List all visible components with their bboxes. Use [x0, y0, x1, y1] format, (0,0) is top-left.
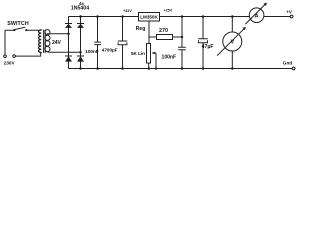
terminal: mains input right [13, 55, 16, 58]
transformer T1 primary winding [39, 30, 42, 53]
svg-text:Reg: Reg [136, 26, 146, 32]
capacitor C3 100nF [178, 47, 186, 68]
node: top rail voltmeter junction [231, 15, 234, 18]
svg-text:230V: 230V [4, 60, 16, 65]
svg-text:1N5404: 1N5404 [71, 6, 89, 12]
wire: pot bottom terminal to bottom rail [148, 63, 150, 69]
wire: regulator output rail [160, 16, 250, 18]
svg-text:+32V: +32V [123, 9, 132, 13]
node: bridge AC1 junction [67, 32, 70, 35]
node: bottom rail C3 junction [181, 67, 184, 70]
voltmeter M1 [217, 27, 246, 56]
node: R1/C3 junction [181, 36, 183, 38]
node: bottom rail leg2 junction [79, 67, 82, 70]
svg-text:270: 270 [159, 28, 168, 34]
node: bottom rail C4 junction [202, 67, 205, 70]
diode D1 (leg1 top, 1N5404) [65, 24, 72, 28]
svg-text:+25V: +25V [163, 9, 172, 13]
svg-text:100nF: 100nF [85, 49, 98, 54]
wire: secondary top to bridge AC node 1 [46, 34, 68, 36]
resistor R1 270 [149, 35, 182, 40]
wire: ground bottom rail [69, 68, 293, 70]
wire: secondary bottom to bridge AC node 2 [49, 51, 80, 53]
diode D3 (leg1 bottom, 1N5404) [65, 56, 72, 62]
node: top rail leg2 junction [79, 15, 82, 18]
potentiometer wiper arrow [152, 52, 156, 55]
node: top rail C4 junction [202, 15, 205, 18]
wire: voltmeter top lead [231, 17, 233, 33]
node: wiper bottom junction [155, 67, 158, 70]
regulator U1 LM350K box [139, 13, 160, 22]
terminal: +V output [290, 15, 293, 18]
svg-text:SWITCH: SWITCH [7, 21, 29, 27]
node: pot bottom junction [148, 67, 151, 70]
svg-text:LM350K: LM350K [140, 15, 158, 20]
terminal: mains input left [4, 55, 7, 58]
terminal: Gnd [292, 67, 295, 70]
diode D2 (leg2 top, 1N5404) [77, 24, 84, 28]
node: bottom rail voltmeter junction [231, 67, 234, 70]
wire: wiper to bottom rail [155, 53, 157, 69]
transformer T1 secondary winding [45, 30, 50, 53]
wire: output node vertical (rail to R1 and C3) [181, 17, 183, 48]
svg-text:Gnd: Gnd [283, 60, 293, 65]
capacitor C4 47uF electrolytic [198, 17, 208, 69]
node: bottom rail C2 junction [121, 67, 124, 70]
switch S1 (open SPST) [13, 27, 27, 31]
node: bridge AC2 junction [79, 51, 82, 54]
svg-text:100nF: 100nF [162, 54, 176, 60]
svg-text:4700µF: 4700µF [102, 47, 118, 52]
node: top rail 100nF junction [96, 15, 99, 18]
node: top rail output junction [181, 15, 184, 18]
wire: positive top rail (bridge to regulator input) [69, 16, 139, 18]
potentiometer VR1 5K Lin body [147, 44, 151, 64]
capacitor C1 100nF [94, 17, 101, 69]
wire: mains neutral to transformer primary bottom [15, 52, 40, 56]
svg-text:+V: +V [286, 9, 293, 14]
svg-text:24V: 24V [52, 40, 62, 46]
diode D4 (leg2 bottom, 1N5404) [77, 56, 84, 62]
wire: ammeter to +V terminal [264, 16, 290, 18]
ammeter M2 [245, 3, 267, 25]
wire: bridge leg 1 vertical [68, 17, 70, 69]
svg-text:47µF: 47µF [202, 44, 214, 50]
wire: regulator ADJ pin down to potentiometer [148, 21, 150, 44]
wire: voltmeter bottom lead [231, 51, 233, 69]
wire: switch to transformer primary top [5, 29, 41, 31]
node: top rail 4700uF junction [121, 15, 124, 18]
transformer T1 core [44, 30, 46, 53]
capacitor C2 4700uF electrolytic [118, 17, 127, 69]
svg-text:5K Lin: 5K Lin [131, 51, 145, 56]
node: bottom rail C1 junction [96, 67, 99, 70]
wire: mains live from left terminal up to switch [4, 30, 6, 55]
wire: bridge leg 2 vertical [80, 17, 82, 69]
